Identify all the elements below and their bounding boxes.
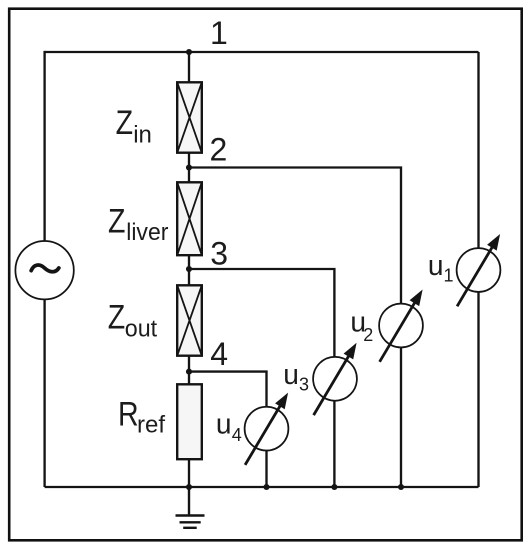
resistor R_ref (177, 384, 202, 459)
svg-text:u: u (428, 250, 444, 282)
svg-text:2: 2 (363, 325, 373, 345)
wire: left branch from node 1 down to source top (43, 51, 45, 242)
svg-text:R: R (118, 395, 139, 433)
svg-text:4: 4 (232, 425, 242, 445)
voltmeter U1 (457, 234, 501, 306)
node 2 (186, 164, 192, 170)
svg-text:out: out (125, 316, 158, 342)
node 4 (186, 369, 192, 375)
junction: U4 / bottom rail (263, 484, 269, 490)
label: R_ref (118, 395, 165, 438)
impedance Z_out (177, 285, 202, 355)
svg-text:1: 1 (444, 266, 454, 286)
wire: source bottom down to bottom rail (43, 298, 45, 487)
wire: bottom rail (45, 486, 479, 488)
wire: node 3 branch to U3 (189, 269, 334, 487)
wire: top rail node 1 (45, 51, 479, 53)
svg-text:2: 2 (210, 131, 228, 167)
label: u1 (428, 250, 454, 286)
svg-text:3: 3 (299, 374, 309, 394)
svg-text:in: in (133, 122, 152, 149)
svg-text:3: 3 (210, 236, 228, 272)
junction: ground / bottom rail (186, 484, 192, 490)
svg-text:Z: Z (108, 298, 125, 336)
svg-text:1: 1 (210, 15, 228, 51)
label: u4 (216, 408, 242, 445)
svg-text:u: u (216, 408, 232, 440)
ground (176, 487, 205, 528)
wire: node 4 branch to U4 (189, 372, 267, 487)
label: u2 (350, 306, 373, 345)
junction: U3 / bottom rail (331, 484, 337, 490)
svg-text:Z: Z (116, 104, 133, 142)
svg-text:liver: liver (126, 218, 168, 245)
junction: U2 / bottom rail (398, 484, 404, 490)
impedance Z_in (177, 82, 202, 152)
node 1 (186, 49, 192, 55)
svg-text:Z: Z (108, 202, 125, 240)
voltmeter U4 (245, 393, 289, 465)
label: u3 (283, 359, 309, 395)
label: Z_in (116, 104, 152, 149)
voltmeter U3 (313, 343, 357, 415)
wire: U1 vertical from top rail to bottom rail (477, 52, 479, 487)
impedance Z_liver (177, 182, 202, 255)
svg-text:4: 4 (210, 336, 228, 372)
voltmeter U2 (379, 290, 423, 362)
wire: node 2 branch to U2 (189, 168, 401, 488)
svg-text:u: u (283, 359, 299, 391)
node 3 (186, 266, 192, 272)
svg-text:ref: ref (137, 412, 165, 439)
wire: main chain vertical through impedances (188, 52, 190, 487)
label: Z_out (108, 298, 158, 342)
label: Z_liver (108, 202, 169, 245)
AC voltage source (15, 241, 73, 299)
